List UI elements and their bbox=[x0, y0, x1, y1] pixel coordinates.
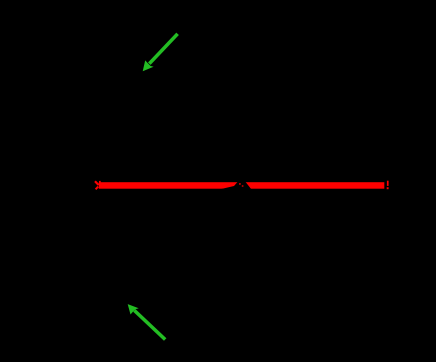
green arrow top (pointing down-left) bbox=[143, 34, 178, 71]
right end occluder gap bbox=[384, 179, 386, 193]
green arrow bottom (pointing up-left) bbox=[128, 304, 166, 339]
red fleck inside caret bbox=[239, 183, 241, 185]
right x marker remnant dot bbox=[387, 187, 389, 189]
left x marker upper-left arm bbox=[95, 181, 99, 185]
black caret shape (occludes line center) bbox=[218, 181, 252, 193]
right x marker remnant dash bbox=[387, 181, 389, 186]
red beam line bbox=[99, 182, 385, 189]
left x marker lower-left arm bbox=[96, 187, 99, 190]
left x marker upper-right tip bbox=[99, 181, 101, 183]
red fleck 2 inside caret bbox=[242, 185, 244, 187]
